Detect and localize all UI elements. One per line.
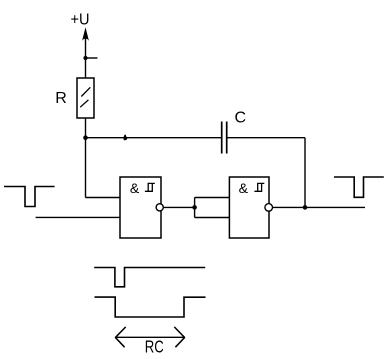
dimension arrow RC span bbox=[115, 327, 185, 347]
svg-text:R: R bbox=[55, 90, 67, 107]
nand gate U2 box bbox=[229, 177, 269, 238]
power supply arrow bbox=[82, 27, 89, 78]
wire tie vertical bbox=[194, 198, 196, 218]
wire RC node to capacitor bbox=[86, 137, 222, 139]
gate U2 output inversion bubble bbox=[265, 204, 273, 212]
trigger input wire to gate 1 lower input bbox=[36, 216, 120, 218]
junction dot at gate 2 input tie bbox=[192, 205, 197, 210]
timing trace input pulse (bottom) bbox=[94, 268, 205, 287]
svg-text:&: & bbox=[130, 180, 140, 196]
wire resistor bottom to RC node bbox=[85, 118, 87, 138]
gate U2 pulse symbol bbox=[254, 183, 264, 191]
wire capacitor to right corner bbox=[227, 137, 305, 139]
svg-text:C: C bbox=[235, 109, 247, 126]
gate U1 pulse symbol bbox=[145, 183, 155, 191]
input trigger waveform (left) bbox=[4, 187, 55, 207]
svg-text:+U: +U bbox=[71, 12, 90, 29]
junction dot output node bbox=[303, 205, 308, 210]
output wire bbox=[273, 206, 366, 208]
junction dot on supply wire bbox=[83, 56, 87, 60]
wire gate 1 output to gate 2 bbox=[163, 206, 194, 208]
output waveform (right) bbox=[334, 177, 384, 197]
wire into gate 1 upper input bbox=[86, 197, 121, 199]
svg-text:RC: RC bbox=[145, 336, 164, 356]
wire gate 2 lower input bbox=[195, 217, 230, 219]
nand gate U1 box bbox=[120, 177, 161, 238]
timing trace output pulse (bottom) bbox=[95, 297, 206, 317]
wire stub right of supply junction bbox=[86, 57, 98, 59]
resistor R body bbox=[77, 78, 94, 118]
gate U1 output inversion bubble bbox=[156, 204, 163, 211]
wire down to output node bbox=[304, 138, 306, 208]
wire gate 2 upper input bbox=[195, 197, 230, 199]
capacitor C plates bbox=[222, 122, 227, 154]
node RC junction dot bbox=[83, 135, 88, 140]
wire RC node down to gate 1 input bbox=[85, 138, 87, 198]
svg-text:&: & bbox=[239, 180, 249, 196]
current direction arrow on wire bbox=[123, 134, 127, 140]
